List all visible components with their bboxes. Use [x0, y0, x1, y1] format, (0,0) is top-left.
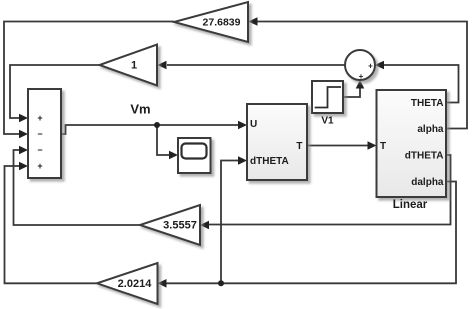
arrowhead into sum input 4	[19, 162, 28, 171]
svg-text:V1: V1	[321, 116, 334, 127]
wire: gain 3.5557 output to sum input 3	[14, 150, 141, 225]
svg-text:+: +	[37, 113, 42, 123]
gain 1	[100, 45, 158, 86]
wire: dalpha branch to subsystem dTHETA input	[221, 161, 239, 284]
wire: alpha output loop to gain 27.6839	[257, 22, 467, 129]
svg-text:T: T	[296, 141, 302, 152]
svg-text:dTHETA: dTHETA	[250, 156, 289, 167]
svg-text:27.6839: 27.6839	[203, 16, 241, 28]
svg-text:alpha: alpha	[417, 124, 444, 135]
scope	[178, 138, 211, 173]
arrowhead into sum circle right	[375, 61, 384, 70]
wire: gain 2.0214 output to sum input 4	[5, 166, 98, 283]
svg-text:U: U	[250, 119, 257, 130]
svg-text:dTHETA: dTHETA	[405, 151, 444, 162]
svg-text:1: 1	[131, 60, 137, 72]
wire: gain 1 output to sum input 1	[10, 65, 100, 118]
Linear subsystem	[377, 90, 447, 197]
arrowhead into sum circle bottom	[356, 80, 365, 89]
arrowhead into gain 2.0214	[158, 279, 167, 288]
wire: THETA output to sum circle	[383, 65, 459, 103]
gain 27.6839	[174, 2, 248, 42]
arrowhead into gain 3.5557	[200, 221, 209, 230]
gain 3.5557	[140, 205, 200, 245]
svg-text:+: +	[368, 62, 373, 71]
sum block (rectangle, + - - +)	[28, 89, 61, 178]
junction node on dalpha wire	[218, 280, 224, 286]
arrowhead into sum input 1	[19, 114, 28, 123]
wire: dalpha output to gain 2.0214	[166, 182, 456, 284]
wire: sum circle output to gain 1	[167, 64, 346, 66]
wire T: subsystem output to Linear input	[307, 145, 368, 147]
svg-text:dalpha: dalpha	[411, 177, 444, 188]
wire: gain 27.6839 output to sum input 2	[4, 22, 174, 135]
step source V1	[312, 81, 343, 127]
arrowhead into gain 27.6839	[249, 17, 258, 26]
arrowhead into gain 1	[158, 61, 167, 70]
sum circle (+ +)	[345, 50, 375, 81]
svg-text:+: +	[359, 72, 364, 81]
wire: V1 output to sum circle bottom	[343, 88, 360, 97]
gain 2.0214	[97, 263, 158, 304]
arrowhead into subsystem U input	[238, 121, 247, 130]
svg-text:Vm: Vm	[130, 102, 150, 117]
arrowhead into Linear T input	[368, 141, 377, 150]
svg-text:−: −	[37, 129, 42, 139]
svg-text:3.5557: 3.5557	[163, 220, 197, 232]
svg-text:−: −	[37, 145, 42, 155]
arrowhead into scope	[169, 151, 178, 160]
arrowhead into sum input 2	[19, 130, 28, 139]
svg-text:Linear: Linear	[393, 199, 428, 211]
wire: dTHETA output to gain 3.5557	[208, 155, 451, 225]
junction node on Vm wire	[154, 122, 160, 128]
svg-text:THETA: THETA	[411, 98, 444, 109]
wire: Vm branch to scope	[157, 125, 170, 155]
arrowhead into sum input 3	[19, 146, 28, 155]
wire Vm: sum output to subsystem U input	[61, 125, 239, 134]
arrowhead into subsystem dTHETA input	[238, 156, 247, 165]
svg-text:T: T	[380, 141, 386, 152]
svg-text:2.0214: 2.0214	[118, 278, 153, 290]
controller subsystem (U, dTHETA -> T)	[247, 104, 307, 180]
svg-text:+: +	[37, 161, 42, 171]
